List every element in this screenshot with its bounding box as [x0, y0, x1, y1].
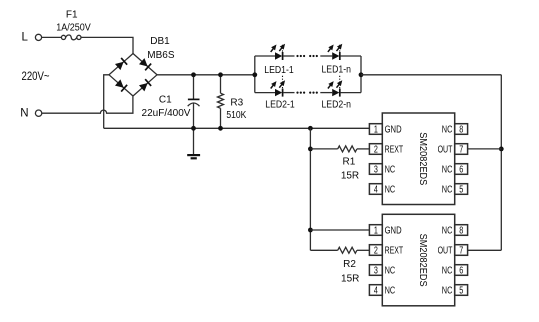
svg-text:R2: R2: [343, 259, 356, 270]
svg-text:1: 1: [374, 226, 378, 237]
junction dot V- at C1: [191, 126, 196, 131]
bridge rectifier DB1 outline: [109, 54, 157, 97]
LED block left vertical wire: [254, 56, 256, 93]
U2 pin 3 box: [369, 265, 382, 277]
svg-text:NC: NC: [385, 185, 396, 196]
terminal N: [20, 107, 42, 119]
wire bottom branch right: [340, 92, 361, 94]
U2 pin 5 box: [455, 285, 468, 297]
svg-text:1A/250V: 1A/250V: [56, 23, 91, 34]
svg-text:8: 8: [459, 125, 463, 136]
U2 pin 2 box: [369, 245, 382, 257]
junction dot V+ at R3: [218, 72, 223, 77]
wire IC1 pin7 to OUT bus: [468, 148, 502, 150]
svg-text:F1: F1: [66, 9, 78, 20]
U2 pin 7 box: [455, 245, 468, 257]
resistor R3: [218, 75, 224, 129]
svg-text:220V~: 220V~: [22, 71, 50, 83]
svg-text:NC: NC: [442, 266, 453, 277]
svg-text:C1: C1: [159, 94, 172, 105]
wire top branch middle with dots: [283, 55, 332, 57]
U2 pin 6 box: [455, 265, 468, 277]
bridge diode bottom-right: [139, 79, 151, 91]
svg-text:NC: NC: [442, 185, 453, 196]
resistor R2: [310, 247, 369, 253]
U1 pin 8 box: [455, 124, 468, 136]
svg-text:7: 7: [459, 145, 463, 156]
svg-text:OUT: OUT: [438, 246, 453, 257]
svg-text:NC: NC: [385, 286, 396, 297]
capacitor C1: [188, 75, 200, 129]
U1 pin 3 box: [369, 164, 382, 176]
svg-text:8: 8: [459, 226, 463, 237]
U2 pin 4 box: [369, 285, 382, 297]
svg-text:GND: GND: [385, 226, 402, 237]
svg-text:15R: 15R: [341, 170, 359, 181]
wire GND to IC2 pin1: [310, 229, 369, 231]
svg-text:OUT: OUT: [438, 145, 453, 156]
svg-text:510K: 510K: [226, 110, 246, 121]
wire V+ rail bridge to LED block: [157, 74, 255, 76]
svg-text:LED2-n: LED2-n: [321, 100, 351, 111]
svg-text:LED2-1: LED2-1: [265, 100, 295, 111]
U1 pin 2 box: [369, 144, 382, 156]
terminal L: [21, 32, 41, 44]
svg-text:R1: R1: [343, 156, 356, 167]
svg-text:6: 6: [459, 165, 463, 176]
svg-text:3: 3: [374, 165, 378, 176]
svg-text:22uF/400V: 22uF/400V: [142, 108, 191, 119]
svg-text:DB1: DB1: [150, 36, 170, 47]
svg-text:5: 5: [459, 286, 463, 297]
svg-text:N: N: [20, 107, 28, 119]
junction dot V+ at C1: [191, 72, 196, 77]
svg-text:4: 4: [374, 286, 378, 297]
wire OUT bus to IC2 pin7: [468, 249, 502, 251]
wire top branch right: [340, 55, 361, 57]
junction dot R1 branch: [308, 147, 313, 152]
U2 pin 8 box: [455, 225, 468, 237]
junction dot IC2 gnd branch: [308, 228, 313, 233]
wire bottom branch middle with dots: [283, 92, 332, 94]
svg-text:L: L: [21, 32, 28, 44]
svg-text:NC: NC: [385, 165, 396, 176]
svg-text:REXT: REXT: [385, 246, 404, 257]
wire right vertical OUT bus: [500, 75, 502, 251]
bridge diode bottom-left: [115, 79, 127, 91]
LED LED2-1: [269, 75, 287, 97]
LED LED1-n: [326, 42, 344, 60]
svg-text:NC: NC: [442, 125, 453, 136]
junction dot V- at R3: [218, 126, 223, 131]
svg-text:REXT: REXT: [385, 145, 404, 156]
LED LED2-n: [326, 75, 344, 97]
bridge diode top-right: [139, 58, 151, 70]
U2 pin 1 box: [369, 225, 382, 237]
wire fuse to bridge top: [81, 37, 133, 53]
svg-text:2: 2: [374, 246, 378, 257]
fuse F1: [61, 35, 81, 40]
wire V- bottom rail to IC1 pin1: [104, 127, 370, 129]
svg-text:NC: NC: [442, 165, 453, 176]
U1 pin 4 box: [369, 184, 382, 196]
svg-text:GND: GND: [385, 125, 402, 136]
svg-text:7: 7: [459, 246, 463, 257]
wire bridge left corner to V- rail: [104, 75, 109, 129]
U1 pin 7 box: [455, 144, 468, 156]
svg-text:LED1-1: LED1-1: [264, 65, 294, 76]
svg-text:NC: NC: [442, 286, 453, 297]
svg-text:2: 2: [374, 145, 378, 156]
op-amp U2 SM2082EDS body: [382, 214, 454, 305]
wire top branch left: [255, 55, 275, 57]
svg-text:LED1-n: LED1-n: [321, 65, 351, 76]
junction dot LED block left: [252, 72, 257, 77]
resistor R1: [310, 146, 369, 152]
wire LED block to right vertical: [361, 74, 501, 76]
wire bottom branch left: [255, 92, 275, 94]
svg-text:6: 6: [459, 266, 463, 277]
svg-text:15R: 15R: [341, 273, 359, 284]
wire GND vertical branch: [309, 128, 311, 250]
wire L to fuse: [42, 36, 62, 38]
svg-text:NC: NC: [385, 266, 396, 277]
bridge diode top-left: [115, 58, 127, 70]
svg-text:NC: NC: [442, 226, 453, 237]
junction dot OUT bus at IC1 pin7: [499, 147, 504, 152]
wire N with hop over gnd wire: [42, 96, 133, 113]
LED LED1-1: [269, 42, 287, 60]
svg-text:5: 5: [459, 185, 463, 196]
ground: [187, 128, 200, 158]
U1 pin 1 box: [369, 124, 382, 136]
svg-text:MB6S: MB6S: [147, 50, 175, 61]
svg-text:SM2082EDS: SM2082EDS: [417, 234, 428, 287]
svg-text:3: 3: [374, 266, 378, 277]
junction dot GND branch: [308, 126, 313, 131]
LED block right vertical wire: [360, 56, 362, 93]
svg-text:1: 1: [374, 125, 378, 136]
junction dot LED block right: [359, 72, 364, 77]
svg-text:4: 4: [374, 185, 378, 196]
svg-text:SM2082EDS: SM2082EDS: [417, 132, 428, 185]
op-amp U1 SM2082EDS body: [382, 113, 454, 205]
U1 pin 6 box: [455, 164, 468, 176]
U1 pin 5 box: [455, 184, 468, 196]
svg-text:R3: R3: [230, 98, 243, 109]
